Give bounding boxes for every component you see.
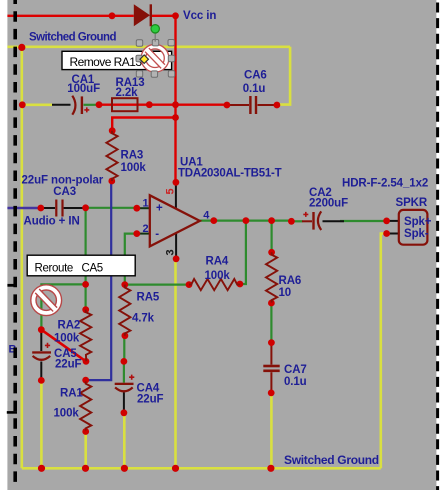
prohibition sign (Remove RA13) bbox=[141, 44, 169, 72]
resistor RA4 zigzag bbox=[189, 279, 240, 290]
resistor RA5 zigzag bbox=[119, 285, 130, 336]
svg-text:0.1u: 0.1u bbox=[243, 83, 266, 95]
junction RA2.2 / reroute wire bbox=[83, 358, 90, 365]
svg-text:Vcc in: Vcc in bbox=[183, 10, 216, 22]
wire: Vcc feed left bbox=[7, 15, 133, 17]
capacitor CA2 symbol bbox=[303, 211, 321, 230]
pin RA3.2 bbox=[108, 178, 115, 185]
pin CA6.1 bbox=[224, 102, 231, 109]
wire: rerouted CA5 diagonal bbox=[41, 330, 86, 362]
pin CA7.2 bbox=[268, 390, 275, 397]
pin CA3.1 audio in bbox=[37, 205, 44, 212]
wire: junction to RA4 left bbox=[125, 284, 189, 286]
svg-text:TDA2030AL-TB51-T: TDA2030AL-TB51-T bbox=[178, 168, 282, 180]
junction output / feedback bbox=[243, 217, 250, 224]
sheet row tick upper bbox=[7, 284, 17, 287]
svg-text:SPKR: SPKR bbox=[396, 197, 428, 209]
resistor RA6 zigzag bbox=[266, 252, 277, 302]
wire: CA4 top pin green bbox=[123, 361, 125, 382]
svg-text:3: 3 bbox=[165, 249, 177, 255]
pin UA1.1 non-inverting bbox=[133, 205, 140, 212]
pin: SPKR leads bbox=[387, 220, 399, 222]
wire: output to RA6 top bbox=[271, 221, 273, 253]
wire: CA2 right to SPKR bbox=[340, 220, 387, 222]
svg-text:RA5: RA5 bbox=[137, 292, 160, 304]
wire: SPKR pin2 to ground bbox=[381, 234, 387, 469]
wire: RA5 bottom to CA4 top bbox=[123, 336, 125, 362]
svg-text:Switched Ground: Switched Ground bbox=[29, 32, 116, 44]
wire: left Switched Ground vertical bbox=[20, 47, 23, 468]
resistor RA13 body bbox=[112, 98, 138, 111]
wire: feedback elbow to RA4 right bbox=[240, 221, 246, 284]
wire: CA1 right stub green bbox=[84, 104, 98, 106]
junction ground rail / CA7 drop bbox=[267, 465, 274, 472]
pin UA1.4 output bbox=[210, 217, 217, 224]
svg-text:Spk+: Spk+ bbox=[404, 216, 432, 228]
svg-text:100uF: 100uF bbox=[67, 83, 100, 95]
pin: op-amp pin2 stub bbox=[137, 233, 151, 235]
svg-text:RA6: RA6 bbox=[279, 275, 302, 287]
diode D (Vcc in) bbox=[134, 4, 152, 26]
svg-text:0.1u: 0.1u bbox=[284, 376, 307, 388]
pin SPKR Spk- bbox=[383, 230, 390, 237]
pin: op-amp pin5 stub bbox=[175, 182, 177, 209]
pin: CA6 leads bbox=[227, 104, 249, 106]
wire: bottom Switched Ground rail bbox=[22, 467, 381, 470]
wire: CA7 bottom to ground bbox=[270, 393, 273, 468]
capacitor CA7 symbol bbox=[263, 365, 279, 372]
pin: CA5 leads bbox=[40, 331, 42, 352]
annotation box Remove RA13 bbox=[62, 51, 172, 69]
svg-text:HDR-F-2.54_1x2: HDR-F-2.54_1x2 bbox=[342, 178, 428, 190]
junction Vcc rail / CA6 branch bbox=[172, 101, 179, 108]
pin: CA3 leads bbox=[41, 207, 55, 209]
junction output / RA6 branch bbox=[268, 217, 275, 224]
wire: diode cathode to Vcc junction bbox=[152, 15, 176, 17]
junction ground rail / pin3 drop bbox=[172, 465, 179, 472]
wire: audio junction down bbox=[84, 208, 86, 310]
svg-text:RA2: RA2 bbox=[58, 320, 81, 332]
pin CA4.1 bbox=[121, 358, 128, 365]
svg-text:2: 2 bbox=[143, 223, 149, 235]
svg-text:+: + bbox=[156, 203, 163, 215]
svg-text:22uF: 22uF bbox=[137, 394, 164, 406]
resistor RA1 zigzag bbox=[80, 381, 91, 430]
svg-text:Audio + IN: Audio + IN bbox=[24, 216, 80, 228]
svg-text:CA7: CA7 bbox=[284, 364, 307, 376]
svg-text:2.2k: 2.2k bbox=[116, 87, 139, 99]
svg-text:Reroute CA5: Reroute CA5 bbox=[35, 263, 103, 275]
pin UA1.2 inverting bbox=[133, 230, 140, 237]
pin RA3.1 bbox=[109, 127, 116, 134]
svg-text:22uF non-polar: 22uF non-polar bbox=[22, 175, 104, 187]
junction ground rail / CA4 drop bbox=[121, 465, 128, 472]
junction CA3.2 / input node bbox=[82, 204, 89, 211]
capacitor CA1 symbol bbox=[72, 96, 89, 115]
pin CA5.1 bbox=[38, 326, 45, 333]
svg-text:100k: 100k bbox=[121, 162, 147, 174]
wire: RA3 bottom blue net bbox=[86, 181, 112, 380]
pin UA1.3 ground bbox=[173, 255, 180, 262]
wire: RA6 bottom to CA7 top bbox=[270, 303, 272, 343]
junction Vcc in node bbox=[172, 12, 179, 19]
junction inverting node bbox=[121, 281, 128, 288]
sheet row tick lower bbox=[7, 411, 17, 414]
svg-text:CA6: CA6 bbox=[244, 70, 267, 82]
svg-text:Switched Ground: Switched Ground bbox=[284, 453, 379, 467]
svg-text:RA1: RA1 bbox=[60, 388, 83, 400]
junction ground rail / CA5 drop bbox=[38, 465, 45, 472]
junction input node / CA5 branch bbox=[82, 281, 89, 288]
svg-text:22uF: 22uF bbox=[55, 359, 82, 371]
svg-text:CA3: CA3 bbox=[53, 186, 76, 198]
wire: rail to CA6 left bbox=[176, 103, 227, 105]
pin RA1.2 bbox=[82, 428, 89, 435]
wire: op-amp output rail bbox=[200, 220, 292, 222]
pin CA7.1 bbox=[268, 339, 275, 346]
sheet border left dashed bbox=[13, 0, 17, 489]
wire: RA3 top feed bbox=[112, 118, 175, 131]
rotation handle line bbox=[154, 33, 156, 42]
pin RA6.2 bbox=[268, 300, 275, 307]
capacitor CA3 symbol bbox=[55, 200, 63, 217]
capacitor CA5 symbol bbox=[32, 343, 51, 360]
pin: CA4 bottom lead bbox=[123, 393, 125, 413]
svg-text:4.7k: 4.7k bbox=[132, 313, 155, 325]
pin RA5.2 bbox=[122, 332, 129, 339]
wire: RA1 bottom to ground bbox=[84, 432, 87, 469]
junction switched-ground left rail bbox=[18, 44, 25, 51]
wire: CA5 bottom to ground bbox=[40, 380, 43, 468]
selection handles around sign bbox=[136, 40, 175, 78]
svg-text:10: 10 bbox=[279, 287, 292, 299]
junction ground rail / RA1 drop bbox=[82, 465, 89, 472]
resistor RA3 zigzag bbox=[106, 131, 117, 181]
wire: CA4 bottom to ground bbox=[123, 413, 126, 469]
wire: CA1 left stub bbox=[22, 104, 52, 107]
junction CA1+ / RA13.1 bbox=[96, 101, 103, 108]
pin CA2.1 bbox=[288, 218, 295, 225]
svg-text:Remove RA13: Remove RA13 bbox=[70, 55, 143, 69]
capacitor CA6 symbol bbox=[249, 96, 257, 114]
annotation box Reroute CA5 bbox=[27, 255, 135, 276]
pin UA1.5 V+ bbox=[173, 179, 180, 186]
pin RA4.2 bbox=[237, 281, 244, 288]
wire: audio to pin1 green bbox=[86, 207, 137, 209]
wire: audio input purple bbox=[7, 207, 40, 209]
pin CA5.2 bbox=[38, 377, 45, 384]
op-amp UA1 triangle bbox=[150, 195, 200, 246]
svg-text:100k: 100k bbox=[54, 408, 80, 420]
sheet border right dashed bbox=[436, 3, 439, 491]
svg-text:Spk-: Spk- bbox=[404, 228, 429, 240]
svg-text:100k: 100k bbox=[54, 333, 80, 345]
pin SPKR Spk+ bbox=[383, 218, 390, 225]
pin RA4.1 bbox=[186, 281, 193, 288]
junction RA13.2 bbox=[146, 101, 153, 108]
svg-text:-: - bbox=[155, 229, 159, 241]
svg-text:4: 4 bbox=[203, 210, 210, 222]
svg-text:RA3: RA3 bbox=[121, 150, 144, 162]
pin RA2.1 bbox=[82, 306, 89, 313]
wire: Switched Ground drop to CA6 bbox=[277, 47, 291, 105]
connector SPKR box bbox=[399, 210, 428, 245]
pin: CA1 left lead bbox=[52, 104, 71, 106]
pin RA6.1 bbox=[268, 249, 275, 256]
junction diode anode / Vcc feed bbox=[109, 12, 116, 19]
pin: CA7 leads bbox=[270, 343, 272, 365]
svg-text:5: 5 bbox=[165, 188, 177, 194]
pin: CA2 leads bbox=[291, 220, 302, 222]
capacitor CA4 symbol bbox=[115, 375, 135, 392]
junction RA1.1 / blue net bbox=[82, 377, 89, 384]
svg-text:2200uF: 2200uF bbox=[309, 198, 348, 210]
attachment yellow diamond bbox=[140, 55, 148, 63]
wire: pin2 elbow down bbox=[125, 234, 137, 285]
rotation handle green dot bbox=[151, 25, 159, 33]
junction CA1 left tap bbox=[19, 101, 26, 108]
pin: op-amp pin3 stub bbox=[175, 233, 177, 259]
resistor RA2 zigzag bbox=[80, 310, 91, 362]
pin CA6.2 bbox=[274, 102, 281, 109]
wire: CA1/RA13 rail bbox=[99, 103, 176, 105]
pin CA4.2 bbox=[121, 409, 128, 416]
pin: op-amp pin1 stub bbox=[137, 207, 151, 209]
wire: pin3 to ground bbox=[174, 259, 177, 469]
wire: CA5 top elbow bbox=[41, 284, 85, 329]
svg-text:100k: 100k bbox=[205, 270, 231, 282]
svg-text:RA4: RA4 bbox=[206, 256, 229, 268]
junction Vcc rail / RA3 branch bbox=[172, 114, 179, 121]
wire: Switched Ground top rail bbox=[7, 45, 290, 48]
svg-text:1: 1 bbox=[143, 198, 149, 210]
wire: Vcc vertical to pin5 bbox=[174, 16, 176, 183]
prohibition sign (Reroute CA5) bbox=[31, 285, 62, 316]
